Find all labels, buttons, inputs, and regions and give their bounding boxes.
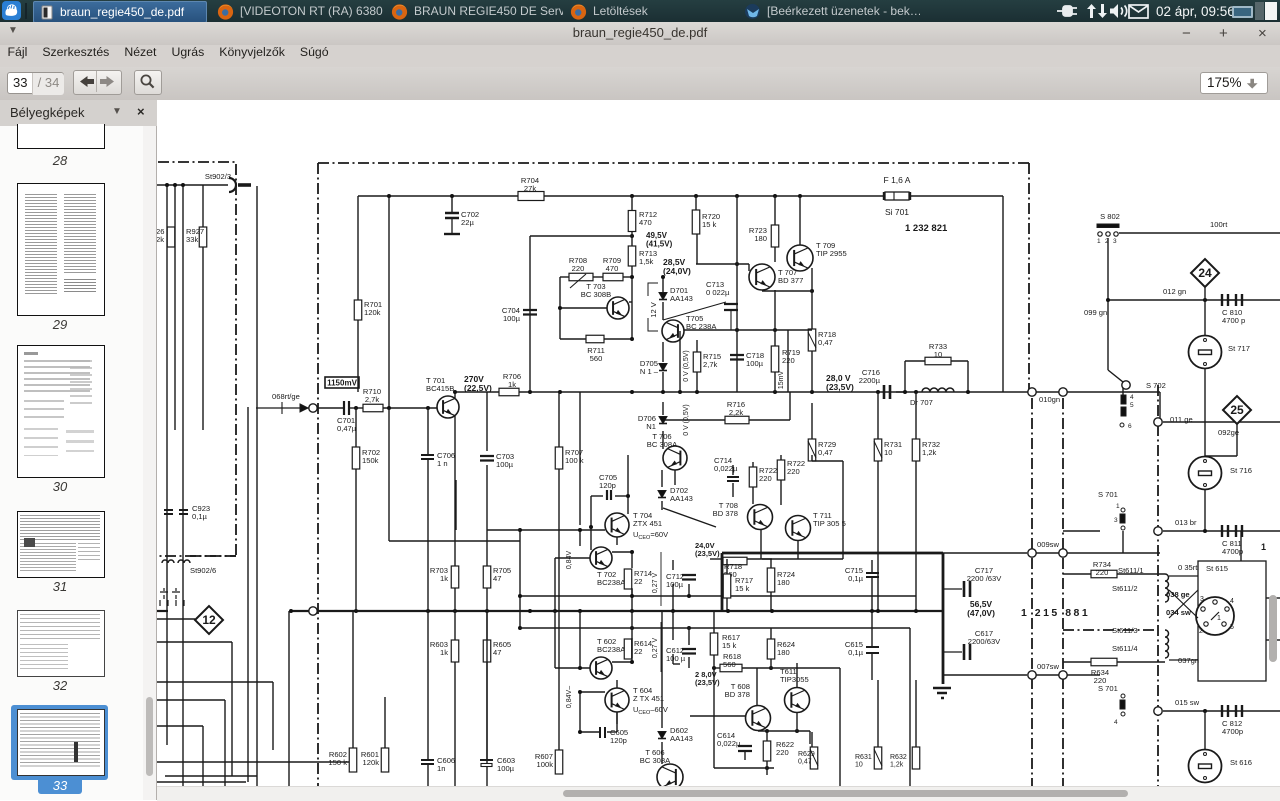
page 32 thumbnail: lighter schematic — [17, 610, 105, 677]
resistor R602 150k — [349, 748, 357, 772]
svg-text:BD 377: BD 377 — [778, 276, 803, 285]
svg-text:012 gn: 012 gn — [1163, 287, 1186, 296]
transistor T704 ZTX451 — [605, 513, 629, 537]
svg-text:S 701: S 701 — [1098, 684, 1118, 693]
svg-text:0,022µ: 0,022µ — [717, 739, 741, 748]
resistor R701 120k — [354, 300, 382, 320]
junction top rail — [387, 194, 802, 238]
svg-text:015 sw: 015 sw — [1175, 698, 1200, 707]
junction low bus — [289, 609, 918, 613]
svg-text:12 V: 12 V — [649, 302, 658, 317]
svg-text:15mV: 15mV — [778, 371, 785, 390]
sidebar thumbnails — [0, 126, 157, 800]
svg-text:12: 12 — [202, 613, 216, 627]
svg-text:Z TX 451: Z TX 451 — [633, 694, 664, 703]
svg-text:St611/3: St611/3 — [1112, 626, 1138, 635]
diode D702 AA143 — [658, 486, 693, 503]
svg-text:0,1µ: 0,1µ — [192, 512, 208, 521]
resistor R719 220 — [771, 346, 800, 372]
page 33 selected thumbnail — [11, 705, 108, 780]
resistor R734 220 — [1091, 570, 1117, 578]
svg-text:N1: N1 — [646, 422, 656, 431]
svg-text:092ge: 092ge — [1218, 428, 1239, 437]
wire D701 col — [662, 277, 664, 320]
sidebar header — [0, 100, 158, 127]
resistor R631 10 — [874, 747, 882, 769]
svg-text:220: 220 — [776, 748, 789, 757]
wire mid column links — [710, 559, 772, 611]
resistor R710 2,7k — [363, 404, 383, 412]
horizontal overlay scrollbar — [157, 786, 1280, 801]
svg-text:120k: 120k — [363, 758, 380, 767]
svg-text:St611/1: St611/1 — [1118, 566, 1144, 575]
svg-text:Dr 707: Dr 707 — [910, 398, 933, 407]
svg-text:S 702: S 702 — [1146, 381, 1166, 390]
wire input arrow — [256, 402, 309, 414]
svg-text:S 701: S 701 — [1098, 490, 1118, 499]
wire C615 col — [871, 611, 873, 680]
wire PSU thick frame — [722, 553, 943, 684]
transformer St611 coil b — [1165, 630, 1169, 658]
resistor R703 1k — [451, 566, 459, 588]
resistor R722 220 b — [777, 460, 785, 480]
svg-text:100rt: 100rt — [1210, 220, 1228, 229]
junction 28,5V — [630, 262, 814, 332]
svg-text:1: 1 — [1097, 238, 1101, 245]
transistor T707 BD377 — [749, 264, 775, 290]
svg-text:0 022µ: 0 022µ — [706, 288, 730, 297]
menu bar — [0, 45, 1280, 67]
svg-text:St902/3: St902/3 — [205, 172, 231, 181]
svg-text:0,47µ: 0,47µ — [337, 424, 357, 433]
svg-text:2200 /63V: 2200 /63V — [967, 574, 1003, 583]
svg-text:St611/2: St611/2 — [1112, 584, 1138, 593]
ground symbol PSU — [933, 688, 951, 698]
capacitor C617 2200/63V — [943, 644, 970, 660]
svg-text:120p: 120p — [599, 481, 616, 490]
wire T707/T709 block — [696, 196, 812, 392]
junction 012gn — [1106, 298, 1207, 302]
wire 011ge — [1163, 421, 1280, 423]
svg-text:180: 180 — [777, 648, 790, 657]
box St615 — [1198, 561, 1266, 681]
vertical overlay scrollbar — [1269, 595, 1277, 662]
resistor R927 33k — [199, 227, 207, 247]
wire right edge stubs — [1241, 531, 1280, 640]
svg-text:100µ: 100µ — [746, 359, 764, 368]
wire R718 col — [684, 291, 812, 392]
inductor St902/6 b — [178, 560, 190, 563]
capacitor C702 — [444, 213, 460, 234]
junction upper driver — [518, 494, 691, 630]
svg-text:120p: 120p — [610, 736, 627, 745]
page 30 thumbnail: symbols page — [17, 345, 105, 478]
capacitor C704 100u — [502, 306, 537, 323]
resistor R718b 560 — [723, 557, 747, 565]
junction 015sw — [1203, 709, 1207, 713]
svg-text:AA143: AA143 — [670, 734, 693, 743]
inductor St902/6 a — [162, 560, 174, 563]
svg-text:1: 1 — [1261, 542, 1266, 552]
node 007sw a — [1028, 671, 1036, 679]
svg-text:4: 4 — [1114, 719, 1118, 726]
svg-text:4700 p: 4700 p — [1222, 316, 1245, 325]
svg-text:0,27 V: 0,27 V — [652, 638, 659, 659]
svg-text:100k: 100k — [537, 760, 554, 769]
transistor T604 ZTX451 — [605, 688, 629, 712]
transistor T711 TIP3055 — [786, 516, 811, 541]
wire S701 upper links — [1063, 531, 1123, 553]
desktop taskbar — [0, 0, 1280, 22]
switch S702 contacts — [1120, 394, 1134, 430]
svg-text:UCEO=60V: UCEO=60V — [633, 530, 668, 541]
svg-text:10: 10 — [855, 762, 863, 769]
svg-text:1,5k: 1,5k — [639, 257, 654, 266]
trimmer arrow R708 — [570, 274, 586, 288]
resistor R605 47 — [483, 640, 511, 662]
svg-text:0,47: 0,47 — [818, 448, 833, 457]
connector St902/3 — [229, 178, 251, 192]
capacitor C923 b — [179, 510, 188, 514]
svg-text:120k: 120k — [364, 308, 381, 317]
dash-dot vertical rail right — [1157, 385, 1159, 800]
node 011ge — [1154, 418, 1162, 426]
svg-text:St611/4: St611/4 — [1112, 644, 1138, 653]
capacitor C812 4700p — [1222, 705, 1242, 717]
svg-text:St902/6: St902/6 — [190, 566, 216, 575]
resistor R614 22 — [624, 639, 652, 659]
svg-text:BD 378: BD 378 — [713, 509, 738, 518]
resistor R732 1,2k — [912, 439, 920, 461]
resistor R706 1k — [499, 388, 519, 396]
svg-text:470: 470 — [639, 218, 652, 227]
resistor R601 120k — [381, 748, 389, 772]
svg-text:3: 3 — [1114, 517, 1118, 524]
svg-text:N 1 –: N 1 – — [640, 367, 659, 376]
capacitor C718 100u — [730, 355, 744, 360]
transistor T701 BC415B — [437, 396, 459, 418]
svg-text:22: 22 — [634, 647, 642, 656]
svg-text:220: 220 — [759, 474, 772, 483]
transformer St611 coil a — [1165, 574, 1169, 602]
page 28 thumbnail (partially scrolled off) — [17, 124, 105, 149]
resistor R617 15k — [710, 633, 718, 655]
diamond node 25 — [1223, 396, 1251, 424]
capacitor C615 — [866, 647, 879, 653]
resistor R607 100k — [555, 750, 563, 774]
resistor R729 0,47 — [808, 439, 816, 461]
svg-text:S 802: S 802 — [1100, 212, 1120, 221]
svg-text:150k: 150k — [362, 456, 379, 465]
svg-text:560: 560 — [723, 660, 736, 669]
svg-text:0,1µ: 0,1µ — [848, 648, 864, 657]
svg-text:Si 701: Si 701 — [885, 207, 909, 217]
wire input to T701 — [317, 407, 437, 409]
svg-text:009sw: 009sw — [1037, 540, 1059, 549]
svg-text:BC 308B: BC 308B — [581, 290, 611, 299]
capacitor C705 120p — [607, 490, 611, 500]
svg-text:10: 10 — [884, 448, 892, 457]
svg-text:R631: R631 — [855, 754, 872, 761]
svg-text:27k: 27k — [524, 184, 536, 193]
svg-text:2k: 2k — [157, 235, 164, 244]
resistor R718 0,47 — [808, 329, 816, 351]
switch S701 lower contacts — [1114, 694, 1125, 726]
node 010gn a — [1028, 388, 1036, 396]
svg-text:St 615: St 615 — [1206, 564, 1228, 573]
diamond node 24 — [1191, 259, 1219, 287]
resistor R714 22 — [624, 569, 652, 589]
dash-dot St902/6 line — [190, 555, 236, 557]
svg-text:TIP 305 5: TIP 305 5 — [813, 519, 846, 528]
bracket 12V — [648, 283, 658, 331]
junction St716 — [1203, 529, 1207, 533]
svg-text:ZTX 451: ZTX 451 — [633, 519, 662, 528]
stripe R631 — [874, 749, 882, 766]
svg-text:47: 47 — [493, 574, 501, 583]
page 31 thumbnail: dense schematic — [17, 511, 105, 578]
svg-text:10: 10 — [934, 350, 942, 359]
svg-text:St 717: St 717 — [1228, 344, 1250, 353]
capacitor C717 2200/63V — [943, 581, 970, 597]
junction D701 top — [661, 275, 665, 279]
svg-text:150 k: 150 k — [328, 758, 347, 767]
fuse Si701 F1,6A — [884, 192, 910, 200]
svg-text:St 616: St 616 — [1230, 758, 1252, 767]
inductor Dr707 — [922, 388, 954, 392]
wire R712-R713 — [631, 196, 633, 277]
capacitor C713 — [663, 302, 738, 330]
dash-dot horizontal at S702 — [1063, 629, 1158, 631]
svg-text:2,7k: 2,7k — [365, 395, 380, 404]
svg-text:220: 220 — [572, 264, 585, 273]
svg-text:013 br: 013 br — [1175, 518, 1197, 527]
lamp St716 — [1189, 457, 1252, 490]
wire R720 drop — [695, 196, 697, 210]
node 010gn b — [1059, 388, 1067, 396]
transistor T602 BC238A — [590, 657, 612, 679]
svg-text:2: 2 — [1199, 628, 1203, 635]
wire St716 links — [1163, 456, 1280, 531]
svg-text:1k: 1k — [440, 648, 448, 657]
junction T703 — [558, 306, 634, 341]
wire lower driver links — [555, 611, 680, 764]
svg-text:2200µ: 2200µ — [859, 376, 881, 385]
node input circle — [309, 404, 317, 412]
svg-text:2200/63V: 2200/63V — [968, 637, 1001, 646]
svg-text:(23,5V): (23,5V) — [695, 549, 720, 558]
resistor R702 150k — [352, 447, 360, 469]
resistor R713 1,5k — [628, 246, 657, 266]
svg-text:180: 180 — [754, 234, 767, 243]
wire R715 — [696, 340, 698, 392]
svg-text:AA143: AA143 — [670, 294, 693, 303]
svg-text:1n: 1n — [437, 764, 445, 773]
svg-text:15 k: 15 k — [722, 641, 737, 650]
wire T706 links — [663, 392, 790, 485]
svg-text:470: 470 — [606, 264, 619, 273]
svg-text:4: 4 — [1230, 598, 1234, 605]
svg-text:BC238A: BC238A — [597, 578, 626, 587]
svg-text:6: 6 — [1128, 423, 1132, 430]
svg-text:1k: 1k — [440, 574, 448, 583]
dash-dot main border left side — [317, 163, 319, 800]
svg-text:(24,0V): (24,0V) — [663, 266, 691, 276]
resistor R603 1k — [451, 640, 459, 662]
wire St611 cross links — [1169, 576, 1198, 660]
capacitor C612 100u — [682, 649, 696, 654]
svg-text:4700p: 4700p — [1222, 727, 1243, 736]
wire C718 — [697, 196, 737, 392]
svg-text:R629: R629 — [798, 751, 815, 758]
svg-text:St 716: St 716 — [1230, 466, 1252, 475]
diode D602 AA143 — [658, 726, 693, 743]
svg-text:1,2k: 1,2k — [890, 762, 904, 769]
resistor R624 180 — [767, 639, 775, 659]
resistor R709 470 — [603, 273, 623, 281]
transistor T702 BC238A — [590, 547, 612, 569]
svg-text:1: 1 — [1217, 615, 1221, 622]
resistor R712 470 — [628, 210, 657, 232]
resistor R723 180 — [771, 225, 779, 247]
node S802 bottom — [1122, 381, 1130, 389]
wire R731/R732 cols — [812, 392, 916, 612]
node low bus circle — [309, 607, 317, 615]
wire St902/3 drop — [248, 186, 257, 800]
diode D705 N1 — [659, 364, 667, 371]
svg-text:4700p: 4700p — [1222, 547, 1243, 556]
junction mid bus — [354, 390, 918, 410]
svg-text:068rt/ge: 068rt/ge — [272, 392, 300, 401]
wire C703 col — [486, 392, 488, 530]
svg-text:F 1,6 A: F 1,6 A — [884, 175, 911, 185]
wire diamond 25 col — [1236, 424, 1238, 456]
wire diamond 12 stub — [157, 618, 195, 620]
resistor R731 10 — [874, 439, 882, 461]
resistor R711 560 — [586, 335, 604, 343]
capacitor filter bank — [160, 588, 184, 606]
capacitor C603 — [480, 760, 493, 767]
svg-text:5: 5 — [1230, 624, 1234, 631]
resistor R716 2,2k — [725, 416, 749, 424]
capacitor C703 100u — [480, 456, 494, 461]
svg-text:560: 560 — [590, 354, 603, 363]
wire 100rt — [1119, 232, 1280, 234]
svg-text:0,27 V: 0,27 V — [652, 573, 659, 594]
wire divider cols — [455, 480, 910, 800]
svg-text:1 215 881: 1 215 881 — [1021, 607, 1090, 619]
wire top rail — [358, 195, 1003, 197]
wire top rail to corner — [1002, 196, 1004, 392]
svg-text:100µ: 100µ — [666, 580, 684, 589]
svg-text:3: 3 — [1113, 238, 1117, 245]
wire bottom cols — [353, 611, 559, 790]
diode D701 AA143 — [659, 286, 693, 303]
svg-text:099 gn: 099 gn — [1084, 308, 1107, 317]
resistor R629 0,47 — [810, 747, 818, 769]
svg-text:2,2k: 2,2k — [729, 408, 744, 417]
capacitor C810 4700p — [1222, 294, 1242, 306]
resistor R724 180 — [767, 568, 775, 592]
wire R702 col — [355, 408, 357, 611]
svg-text:TIP 2955: TIP 2955 — [816, 249, 847, 258]
node 009sw a — [1028, 549, 1036, 557]
sidebar scrollbar — [143, 126, 156, 800]
dash-dot shield border left-bottom — [157, 555, 236, 557]
svg-text:24: 24 — [1198, 266, 1212, 280]
wire top rail drops — [358, 196, 452, 408]
svg-text:1k: 1k — [508, 380, 516, 389]
switch S802 — [1097, 224, 1119, 245]
svg-text:0,47: 0,47 — [818, 338, 833, 347]
svg-text:AA143: AA143 — [670, 494, 693, 503]
node 015sw — [1154, 707, 1162, 715]
wire driver column — [579, 392, 581, 525]
capacitor C701 — [344, 401, 349, 415]
node 009sw b — [1059, 549, 1067, 557]
node 013br — [1154, 527, 1162, 535]
svg-text:(23,5V): (23,5V) — [695, 678, 720, 687]
wire 015sw — [1163, 710, 1280, 712]
lamp St616 — [1189, 750, 1252, 783]
dash-dot main border top — [318, 162, 1029, 164]
wire R734 — [1063, 573, 1165, 575]
wire 012gn — [1108, 299, 1280, 301]
page 29 thumbnail: text page — [17, 183, 105, 316]
dash-dot vertical rail B — [1062, 398, 1064, 800]
rotated 0,27V b — [652, 622, 661, 672]
capacitor C811 4700p — [1222, 525, 1242, 537]
junction R733 — [903, 390, 970, 394]
svg-text:220: 220 — [1096, 568, 1109, 577]
resistor R720 15k — [692, 210, 720, 234]
resistor R705 47 — [483, 566, 511, 588]
connector St615 DIN — [1196, 596, 1234, 635]
transistor T709 TIP2955 — [787, 245, 813, 271]
capacitor C712 100u — [682, 575, 696, 580]
wire C706 col — [427, 408, 429, 611]
wire C704 drop — [530, 236, 633, 392]
wire S702 col — [1123, 385, 1160, 420]
wire PSU links — [943, 553, 1160, 675]
svg-text:100 k: 100 k — [565, 456, 584, 465]
diode D706 N1 — [659, 417, 667, 424]
transistor T703 BC308B — [607, 297, 629, 319]
wire upper driver links — [389, 408, 916, 628]
svg-text:220: 220 — [787, 467, 800, 476]
wire top-left input bus — [157, 185, 228, 800]
transistor T706 BC308A — [663, 446, 687, 470]
wire R634 — [1063, 661, 1165, 663]
wire mid bus 270V — [492, 391, 1160, 393]
resistor R707 100k — [555, 447, 563, 469]
wire R707 col — [558, 392, 560, 611]
transistor T608 BD378 — [746, 706, 771, 731]
capacitor C715 — [866, 573, 879, 577]
resistor R926 2k — [156, 227, 175, 247]
wire bottom res cols — [812, 680, 916, 747]
stripe R731 top — [874, 441, 882, 458]
label 1150mV boxed — [325, 377, 359, 388]
wire trimmer row — [560, 277, 632, 296]
svg-text:22: 22 — [634, 577, 642, 586]
dash-dot shield border left block — [158, 162, 236, 556]
wire lower output links — [690, 611, 840, 786]
svg-text:1150mV: 1150mV — [327, 379, 357, 388]
svg-text:0,84V: 0,84V — [566, 551, 573, 570]
junction dots top-left — [165, 183, 185, 187]
svg-text:007sw: 007sw — [1037, 662, 1059, 671]
